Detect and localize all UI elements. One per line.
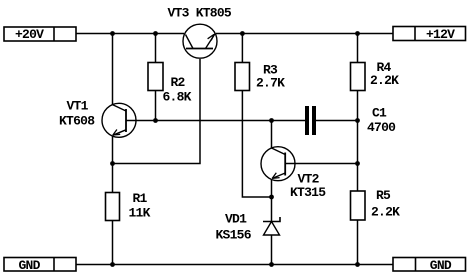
svg-text:VD1: VD1	[225, 212, 247, 227]
wire base row VT1 base to C1 left plate	[127, 120, 306, 122]
svg-text:R1: R1	[133, 191, 148, 206]
junction node dots	[110, 31, 360, 267]
svg-text:6.8K: 6.8K	[163, 89, 192, 104]
wire VD1 anode to GND rail	[271, 235, 273, 265]
resistor R5	[351, 191, 366, 220]
svg-text:2.2K: 2.2K	[370, 73, 399, 88]
wire R3 top	[241, 34, 243, 63]
wire VT1 emitter to R1 top	[112, 137, 114, 193]
wire VT2 base to R4/R5 node	[286, 163, 358, 165]
terminal box GND left	[4, 258, 76, 272]
transistor VT1	[102, 103, 136, 137]
wire VT2 emitter to VD1 cathode	[271, 180, 273, 221]
wire VT1 collector drop	[112, 34, 114, 105]
svg-text:KT608: KT608	[59, 114, 95, 129]
svg-text:+20V: +20V	[15, 27, 44, 42]
wire C1 right plate to R4 column	[316, 120, 358, 122]
transistor VT3	[183, 24, 217, 58]
wire R3 bottom to node at VD1 top	[242, 91, 271, 198]
svg-text:VT1: VT1	[67, 99, 89, 114]
wire VT2 collector drop from C1 node	[271, 121, 273, 148]
wire R2 bottom	[155, 91, 157, 121]
svg-text:C1: C1	[372, 106, 387, 121]
resistor R4	[351, 63, 366, 91]
svg-text:+12V: +12V	[426, 27, 455, 42]
wire R4 bottom to R5 top	[357, 91, 359, 192]
wire top rail right (VT3 emitter to +12V)	[216, 33, 393, 35]
wire R2 top	[155, 34, 157, 63]
svg-text:KS156: KS156	[216, 228, 252, 243]
wire bottom GND rail	[76, 264, 393, 266]
resistor R1	[106, 193, 120, 221]
svg-text:2.7K: 2.7K	[256, 76, 285, 91]
svg-text:R2: R2	[171, 75, 186, 90]
svg-text:KT315: KT315	[290, 185, 326, 200]
wire VT3 base down and left to VT1 emitter node	[113, 59, 201, 164]
wire R4 top	[357, 34, 359, 63]
terminal box +20V	[4, 27, 76, 41]
terminal box +12V	[393, 27, 466, 41]
svg-text:GND: GND	[430, 258, 452, 273]
resistor R2	[148, 63, 163, 91]
capacitor C1	[305, 106, 316, 135]
svg-text:VT3 KT805: VT3 KT805	[168, 5, 232, 20]
zener diode VD1	[263, 217, 280, 235]
wire R5 bottom to GND rail	[357, 220, 359, 265]
svg-text:11K: 11K	[129, 206, 151, 221]
svg-text:4700: 4700	[367, 120, 396, 135]
transistor VT2	[261, 147, 295, 181]
svg-text:R5: R5	[376, 188, 391, 203]
svg-text:GND: GND	[19, 258, 41, 273]
wire R1 bottom to GND rail	[112, 221, 114, 265]
resistor R3	[235, 63, 250, 91]
svg-text:2.2K: 2.2K	[371, 204, 400, 219]
terminal box GND right	[393, 258, 466, 272]
wire top rail left (+20V to VT3 collector)	[76, 33, 184, 35]
